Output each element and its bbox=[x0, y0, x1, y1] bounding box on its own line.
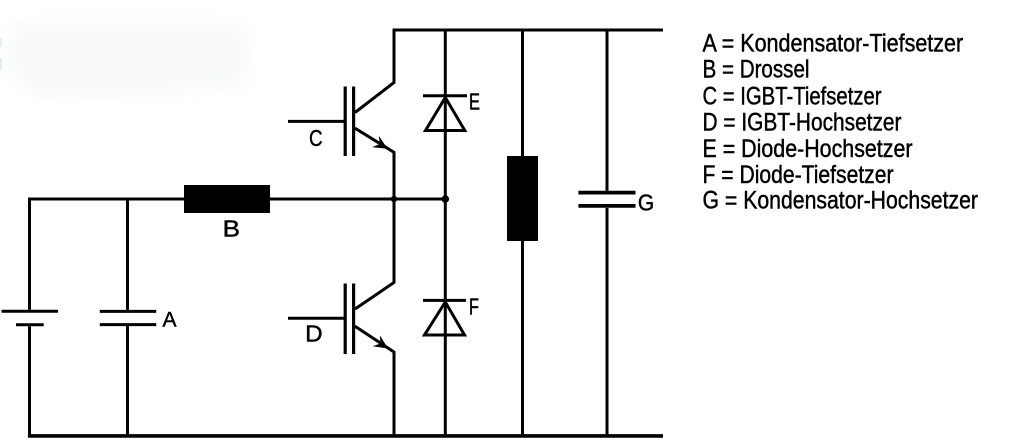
svg-text:D: D bbox=[305, 321, 323, 347]
svg-text:C = IGBT-Tiefsetzer: C = IGBT-Tiefsetzer bbox=[703, 83, 882, 111]
svg-text:E = Diode-Hochsetzer: E = Diode-Hochsetzer bbox=[703, 135, 913, 163]
svg-text:F: F bbox=[469, 294, 479, 320]
svg-text:A = Kondensator-Tiefsetzer: A = Kondensator-Tiefsetzer bbox=[703, 30, 964, 58]
svg-text:G: G bbox=[638, 190, 654, 216]
svg-text:B = Drossel: B = Drossel bbox=[703, 56, 810, 84]
svg-text:G = Kondensator-Hochsetzer: G = Kondensator-Hochsetzer bbox=[703, 187, 979, 215]
svg-text:C: C bbox=[309, 125, 323, 151]
svg-text:E: E bbox=[469, 89, 480, 115]
svg-text:A: A bbox=[163, 309, 177, 332]
svg-text:B: B bbox=[223, 216, 240, 242]
svg-text:F = Diode-Tiefsetzer: F = Diode-Tiefsetzer bbox=[703, 161, 894, 189]
svg-text:D = IGBT-Hochsetzer: D = IGBT-Hochsetzer bbox=[703, 109, 902, 137]
